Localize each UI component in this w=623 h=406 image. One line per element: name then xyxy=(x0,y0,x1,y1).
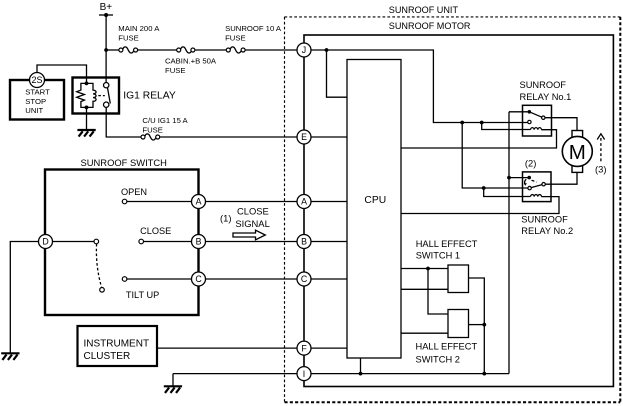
relay1 common node xyxy=(528,110,532,114)
pin J xyxy=(297,43,311,57)
contact tilt up xyxy=(122,277,127,282)
wire main feed to fuse1 xyxy=(106,49,119,51)
svg-text:F: F xyxy=(301,343,307,353)
pin C xyxy=(297,272,311,286)
junction relay2 common feed xyxy=(507,176,511,180)
junction hall outputs xyxy=(482,323,486,327)
relay2 common node xyxy=(527,176,531,180)
svg-text:D: D xyxy=(42,237,48,247)
CPU box xyxy=(347,60,401,359)
hall effect switch 1 box xyxy=(448,265,469,293)
svg-text:2S: 2S xyxy=(31,75,42,85)
fuse CABIN.+B 50A xyxy=(165,47,217,75)
pin B xyxy=(297,235,311,249)
label (1) CLOSE SIGNAL xyxy=(220,205,270,229)
svg-text:HALL EFFECT: HALL EFFECT xyxy=(416,342,478,352)
svg-text:FUSE: FUSE xyxy=(142,125,163,134)
pin B on switch xyxy=(192,235,206,249)
svg-text:J: J xyxy=(302,45,306,55)
fuse SUNROOF 10 A xyxy=(225,24,282,53)
sunroof motor box xyxy=(304,35,613,387)
svg-text:SWITCH 1: SWITCH 1 xyxy=(416,250,460,260)
resistor branch of IG1 relay xyxy=(77,83,87,107)
wire tilt contact to pin C xyxy=(127,278,192,280)
svg-text:B: B xyxy=(196,237,202,247)
svg-text:CLOSE: CLOSE xyxy=(237,205,269,216)
svg-text:E: E xyxy=(301,132,307,142)
wire ground riser to pin I xyxy=(173,373,297,375)
junction hall riser on ground bus xyxy=(482,372,486,376)
svg-text:RELAY No.1: RELAY No.1 xyxy=(520,92,572,102)
pin E xyxy=(297,130,311,144)
dashed motion arrow (3) xyxy=(595,134,606,175)
wire IG1 coil to ground xyxy=(86,107,88,129)
label HALL EFFECT SWITCH 2 xyxy=(416,342,478,365)
dashed actuation link IG1 xyxy=(98,95,105,97)
wire fuse1 to fuse2 xyxy=(138,49,177,51)
wire fuse2 to fuse3 xyxy=(195,49,226,51)
wire J to relay feed xyxy=(311,50,528,123)
wire E to CPU xyxy=(311,136,347,138)
relay1 coil xyxy=(531,128,542,130)
relay IG1 box xyxy=(73,78,120,114)
wire feed to relay2 common xyxy=(509,177,528,179)
relay2 coil xyxy=(531,195,542,197)
switch blade IG1 xyxy=(108,88,111,104)
junction relay2 branch xyxy=(460,121,464,125)
wire open contact to pin A xyxy=(127,201,192,203)
relay IG1 coil node bottom xyxy=(85,106,89,110)
wire relay1 output to motor xyxy=(545,118,577,131)
label SUNROOF RELAY No.1 xyxy=(520,80,572,102)
fuse C/U IG1 15 A xyxy=(141,116,189,140)
svg-text:CPU: CPU xyxy=(364,195,386,206)
switch contact top IG1 xyxy=(104,83,109,88)
svg-text:START: START xyxy=(25,88,50,97)
svg-text:INSTRUMENT: INSTRUMENT xyxy=(84,338,150,349)
fuse MAIN 200 A xyxy=(118,24,160,53)
sunroof switch box xyxy=(45,170,199,316)
wire D to common contact xyxy=(52,241,94,243)
relay IG1 coil node top xyxy=(85,82,89,86)
wire switch C to unit C xyxy=(205,278,297,280)
dashed switch blade in sunroof switch xyxy=(96,244,101,288)
svg-text:A: A xyxy=(196,197,202,207)
relay2 blade xyxy=(531,185,542,188)
svg-text:(1): (1) xyxy=(220,213,231,224)
svg-text:HALL EFFECT: HALL EFFECT xyxy=(416,239,478,249)
label SUNROOF RELAY No.2 xyxy=(521,215,573,237)
contact common xyxy=(94,239,99,244)
junction relay2 coil branch xyxy=(482,186,486,190)
wire switch A to unit A xyxy=(205,201,297,203)
wire relay2 output to motor bottom xyxy=(545,172,577,184)
wire switch B to unit B xyxy=(205,241,297,243)
wire feed to relay1 common xyxy=(509,111,528,113)
start stop unit box xyxy=(10,80,64,120)
wire B to CPU xyxy=(311,241,347,243)
wire CPU to hall2 bottom xyxy=(401,332,448,334)
relay2 dashed stub xyxy=(532,180,537,182)
relay1 blade xyxy=(529,112,542,117)
block arrow close signal xyxy=(233,230,265,240)
hall effect switch 2 box xyxy=(448,310,469,338)
svg-text:MAIN 200 A: MAIN 200 A xyxy=(118,24,160,33)
svg-text:CABIN.+B 50A: CABIN.+B 50A xyxy=(165,56,217,65)
svg-text:FUSE: FUSE xyxy=(225,34,246,43)
svg-text:CLUSTER: CLUSTER xyxy=(84,351,131,362)
wire CPU bottom to ground bus xyxy=(360,358,362,374)
relay2 moving contact xyxy=(528,186,531,189)
relay1 output contact xyxy=(542,116,545,119)
svg-text:UNIT: UNIT xyxy=(25,106,43,115)
ground below I wire xyxy=(164,386,182,393)
wire C/U fuse to pin E xyxy=(160,136,298,138)
wire junction to IG1 switch top xyxy=(105,50,107,83)
wire C to CPU xyxy=(311,278,347,280)
instrument cluster box xyxy=(78,326,158,366)
contact blade end xyxy=(100,288,105,293)
wire CPU to relay1 coil return xyxy=(401,130,557,148)
svg-text:OPEN: OPEN xyxy=(121,187,147,197)
svg-text:B: B xyxy=(301,237,307,247)
relay1 nc contact xyxy=(528,120,531,123)
svg-text:SUNROOF: SUNROOF xyxy=(521,215,568,225)
wire ground line through relays xyxy=(508,112,510,374)
junction CPU ground stub xyxy=(359,372,363,376)
pin D on switch xyxy=(39,235,53,249)
svg-text:SUNROOF: SUNROOF xyxy=(520,80,567,90)
pin A on switch xyxy=(192,195,206,209)
pin C on switch xyxy=(192,272,206,286)
motor M xyxy=(562,131,592,173)
coil branch of IG1 relay xyxy=(87,83,97,107)
svg-text:STOP: STOP xyxy=(25,97,46,106)
wire hall1 output xyxy=(469,278,485,374)
ground below D wire xyxy=(1,353,19,360)
junction main feed xyxy=(104,48,108,52)
sunroof unit dashed border xyxy=(285,17,621,402)
wire CPU to hall1 bottom xyxy=(401,288,448,290)
wire CPU to relay2 coil return xyxy=(401,197,559,214)
node B+ terminal xyxy=(99,2,113,17)
wire D left to ground riser xyxy=(10,242,38,353)
relay No.2 box xyxy=(523,172,552,202)
wire riser down to ground xyxy=(172,374,174,386)
relay2 output contact xyxy=(542,183,545,186)
wire IG1 switch bottom down to C/U fuse row xyxy=(106,107,141,137)
svg-text:B+: B+ xyxy=(100,2,113,13)
ground below IG1 relay xyxy=(77,130,95,137)
label HALL EFFECT SWITCH 1 xyxy=(416,239,478,260)
pin I xyxy=(297,367,311,381)
svg-text:SUNROOF MOTOR: SUNROOF MOTOR xyxy=(389,21,471,31)
wire A to CPU xyxy=(311,201,347,203)
svg-text:SIGNAL: SIGNAL xyxy=(235,218,269,229)
connector 2S xyxy=(30,73,45,88)
svg-text:IG1 RELAY: IG1 RELAY xyxy=(123,90,176,101)
junction relay1 coil branch xyxy=(480,121,484,125)
svg-text:SUNROOF SWITCH: SUNROOF SWITCH xyxy=(81,157,167,168)
svg-text:M: M xyxy=(569,141,586,164)
wire CPU to hall1 top xyxy=(401,268,448,270)
svg-text:SUNROOF UNIT: SUNROOF UNIT xyxy=(389,5,459,15)
svg-text:SUNROOF 10 A: SUNROOF 10 A xyxy=(225,24,282,33)
svg-text:RELAY No.2: RELAY No.2 xyxy=(521,226,573,236)
pin F xyxy=(297,341,311,355)
wire I ground bus xyxy=(311,373,509,375)
pin A xyxy=(297,195,311,209)
svg-text:A: A xyxy=(301,197,307,207)
svg-text:C/U IG1 15 A: C/U IG1 15 A xyxy=(142,116,188,125)
svg-text:C: C xyxy=(301,274,308,284)
svg-text:SWITCH 2: SWITCH 2 xyxy=(416,355,460,365)
wire 2S to relay coil xyxy=(37,65,87,83)
svg-text:(2): (2) xyxy=(525,157,536,168)
svg-text:FUSE: FUSE xyxy=(118,34,139,43)
relay No.1 box xyxy=(523,105,552,136)
switch contact bottom IG1 xyxy=(104,102,109,107)
contact open xyxy=(122,199,127,204)
svg-text:C: C xyxy=(195,274,202,284)
wire branch to relay1 coil xyxy=(482,123,531,130)
svg-text:CLOSE: CLOSE xyxy=(140,226,171,236)
wire J branch into CPU xyxy=(327,50,348,97)
wire branch to relay2 contact xyxy=(462,123,528,189)
svg-text:(3): (3) xyxy=(595,164,606,175)
wire B+ down to main junction xyxy=(105,15,107,50)
junction on J wire xyxy=(325,48,329,52)
relay2 actuation arc arrow xyxy=(525,179,527,184)
svg-text:TILT UP: TILT UP xyxy=(126,290,159,300)
wire branch to relay2 coil xyxy=(484,188,531,197)
wire instrument cluster to pin F xyxy=(157,347,297,349)
wire fuse3 to pin J xyxy=(245,49,297,51)
contact close xyxy=(139,239,144,244)
wire hall2 output xyxy=(469,324,485,326)
wire close contact to pin B xyxy=(144,241,192,243)
wire F to CPU xyxy=(311,347,347,349)
svg-text:FUSE: FUSE xyxy=(165,66,186,75)
svg-text:I: I xyxy=(303,369,305,379)
junction hall2 branch xyxy=(426,267,430,271)
wire branch to hall2 top xyxy=(428,269,448,315)
